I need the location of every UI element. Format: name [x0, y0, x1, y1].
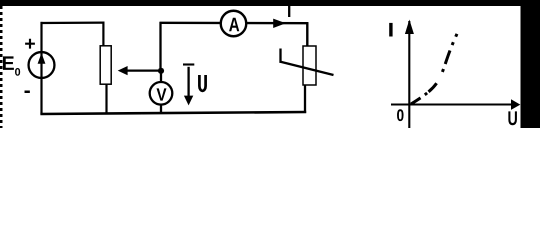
characteristic curve dash-dot [411, 34, 457, 104]
graph label U [508, 111, 517, 125]
wire: node down to voltmeter and bottom [160, 71, 162, 114]
U voltage arrow top bar [183, 63, 194, 65]
wire: varistor bottom stub [304, 86, 306, 114]
node junction dot [158, 68, 164, 74]
switch lever stub hanging from top edge [288, 5, 290, 17]
source E0 circle [29, 52, 55, 78]
wire: potentiometer bottom stub [105, 85, 107, 115]
ammeter label A [229, 18, 239, 31]
source E0 arrow head [38, 53, 46, 64]
wire: left branch through source [40, 22, 42, 115]
plus terminal label [25, 39, 35, 49]
current direction arrow on wire [273, 19, 286, 28]
wire: stub from top wire to potentiometer top [102, 22, 104, 46]
voltmeter label V [157, 88, 167, 100]
wire: top left segment [41, 22, 105, 25]
graph x-axis arrow head [511, 99, 520, 110]
wire: corner down to varistor [306, 22, 308, 46]
graph label I [389, 23, 392, 37]
varistor diagonal foot [279, 49, 281, 63]
varistor body [303, 46, 316, 85]
graph x-axis [391, 103, 512, 105]
U voltage arrow shaft [187, 67, 189, 97]
graph label 0 [397, 109, 403, 121]
wire: node vertical to top wire [159, 22, 161, 71]
wiper arrow line [127, 69, 161, 71]
varistor diagonal stroke [281, 62, 334, 75]
wire: bottom segment [40, 112, 306, 114]
potentiometer body [100, 46, 111, 84]
voltmeter V circle [150, 82, 173, 105]
label E0 [3, 56, 14, 69]
label U (voltage) [199, 75, 205, 91]
graph y-axis arrow head [405, 20, 414, 35]
U voltage arrow head [184, 96, 193, 106]
minus terminal label [25, 91, 30, 94]
wire: top right segment through ammeter [160, 22, 309, 25]
ammeter A circle [221, 11, 247, 37]
wiper arrow head [118, 66, 128, 75]
graph y-axis [408, 21, 410, 128]
